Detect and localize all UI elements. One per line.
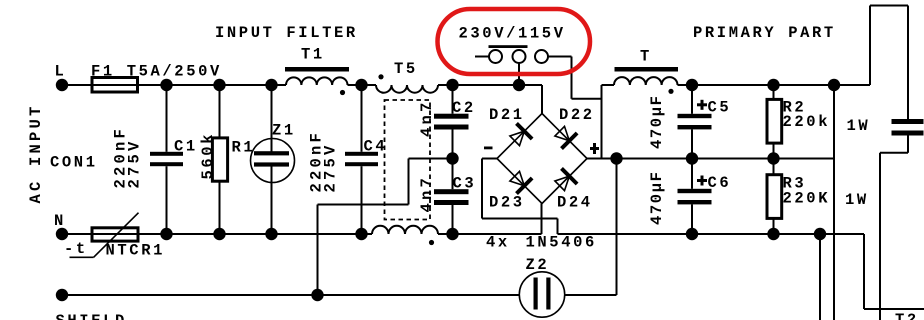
svg-text:560k: 560k [199, 132, 217, 180]
svg-text:C3: C3 [453, 175, 477, 193]
svg-text:INPUT FILTER: INPUT FILTER [215, 24, 358, 42]
svg-text:230V/115V: 230V/115V [459, 25, 566, 43]
svg-text:D21: D21 [489, 106, 525, 124]
svg-text:Z1: Z1 [272, 122, 296, 140]
svg-text:F1 T5A/250V: F1 T5A/250V [91, 63, 222, 81]
svg-text:L: L [55, 63, 67, 81]
svg-text:4n7: 4n7 [418, 175, 436, 213]
svg-text:D24: D24 [557, 194, 593, 212]
svg-text:N: N [54, 212, 66, 230]
svg-text:R1: R1 [232, 139, 256, 157]
svg-text:C5: C5 [708, 98, 732, 116]
svg-text:275V: 275V [126, 138, 144, 188]
svg-text:T1: T1 [301, 46, 325, 64]
svg-text:T5: T5 [394, 60, 418, 78]
svg-text:Z2: Z2 [526, 256, 550, 274]
svg-text:C4: C4 [364, 138, 388, 156]
svg-text:T: T [640, 48, 652, 66]
svg-text:SHIELD: SHIELD [56, 312, 127, 320]
svg-text:PRIMARY PART: PRIMARY PART [693, 24, 836, 42]
svg-text:D23: D23 [489, 194, 525, 212]
svg-text:CON1: CON1 [50, 154, 98, 172]
svg-text:275V: 275V [322, 142, 340, 192]
svg-text:220k: 220k [783, 113, 831, 131]
svg-text:470µF: 470µF [648, 94, 666, 149]
svg-text:-t: -t [64, 240, 88, 258]
svg-text:AC INPUT: AC INPUT [27, 103, 45, 203]
svg-text:4n7: 4n7 [418, 99, 436, 137]
svg-text:470µF: 470µF [648, 170, 666, 225]
svg-text:1W: 1W [845, 191, 869, 209]
svg-text:C2: C2 [452, 99, 476, 117]
svg-text:T2: T2 [895, 311, 919, 320]
svg-text:1W: 1W [847, 117, 871, 135]
svg-text:C1: C1 [174, 138, 198, 156]
svg-text:D22: D22 [559, 106, 595, 124]
svg-text:4x: 4x [486, 234, 510, 252]
svg-text:C6: C6 [708, 174, 732, 192]
svg-text:220K: 220K [783, 190, 831, 208]
svg-text:NTCR1: NTCR1 [106, 242, 166, 260]
svg-text:1N5406: 1N5406 [526, 234, 597, 252]
